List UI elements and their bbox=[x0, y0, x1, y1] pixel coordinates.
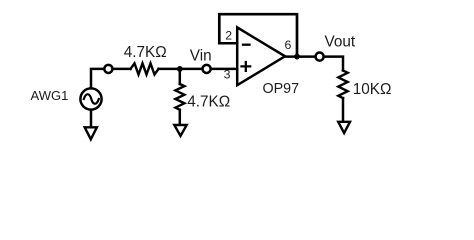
wire AWG1 top to rail corner bbox=[91, 69, 104, 88]
node junction dot (Vin node) bbox=[177, 66, 183, 72]
wire feedback loop bbox=[219, 14, 297, 56]
svg-text:Vout: Vout bbox=[325, 34, 356, 51]
svg-text:2: 2 bbox=[225, 28, 232, 42]
svg-text:3: 3 bbox=[224, 68, 231, 82]
op-amp plus sign bbox=[242, 62, 251, 71]
wire Vin to op-amp pin 3 bbox=[211, 68, 238, 71]
wire op-amp pin 2 stub bbox=[219, 42, 237, 45]
resistor R2 4.7KΩ (shunt) bbox=[175, 84, 184, 110]
wire Vout to R3 bbox=[325, 57, 344, 71]
terminal circle (AWG1 output) bbox=[104, 65, 112, 73]
ground (below R2) bbox=[174, 125, 186, 136]
wire R1 to Vin node bbox=[159, 68, 203, 71]
resistor R1 4.7KΩ (series) bbox=[131, 63, 159, 74]
node junction dot (output node) bbox=[294, 54, 300, 60]
op-amp minus sign bbox=[243, 44, 250, 46]
svg-text:4.7KΩ: 4.7KΩ bbox=[124, 44, 167, 61]
wire terminal to R1 bbox=[113, 68, 131, 71]
ground (below AWG1) bbox=[85, 127, 97, 139]
wire AWG1 bottom to ground bbox=[90, 110, 93, 127]
svg-text:AWG1: AWG1 bbox=[31, 88, 69, 103]
resistor R3 10KΩ (load) bbox=[338, 71, 347, 99]
wire node to shunt resistor bbox=[179, 69, 182, 84]
svg-text:4.7KΩ: 4.7KΩ bbox=[187, 94, 230, 111]
terminal circle Vout bbox=[316, 53, 324, 61]
svg-text:10KΩ: 10KΩ bbox=[353, 81, 392, 98]
svg-text:OP97: OP97 bbox=[263, 81, 300, 97]
AC source AWG1 bbox=[80, 88, 101, 109]
wire R3 to ground bbox=[342, 98, 345, 121]
wire op-amp output to Vout bbox=[285, 55, 315, 58]
op-amp U1 triangle bbox=[237, 27, 285, 85]
svg-text:6: 6 bbox=[285, 38, 292, 52]
ground (below R3) bbox=[338, 122, 350, 133]
wire R2 to ground bbox=[179, 110, 182, 125]
sine wave inside AWG1 bbox=[84, 94, 99, 104]
svg-text:Vin: Vin bbox=[190, 47, 212, 64]
terminal circle Vin bbox=[203, 65, 211, 73]
